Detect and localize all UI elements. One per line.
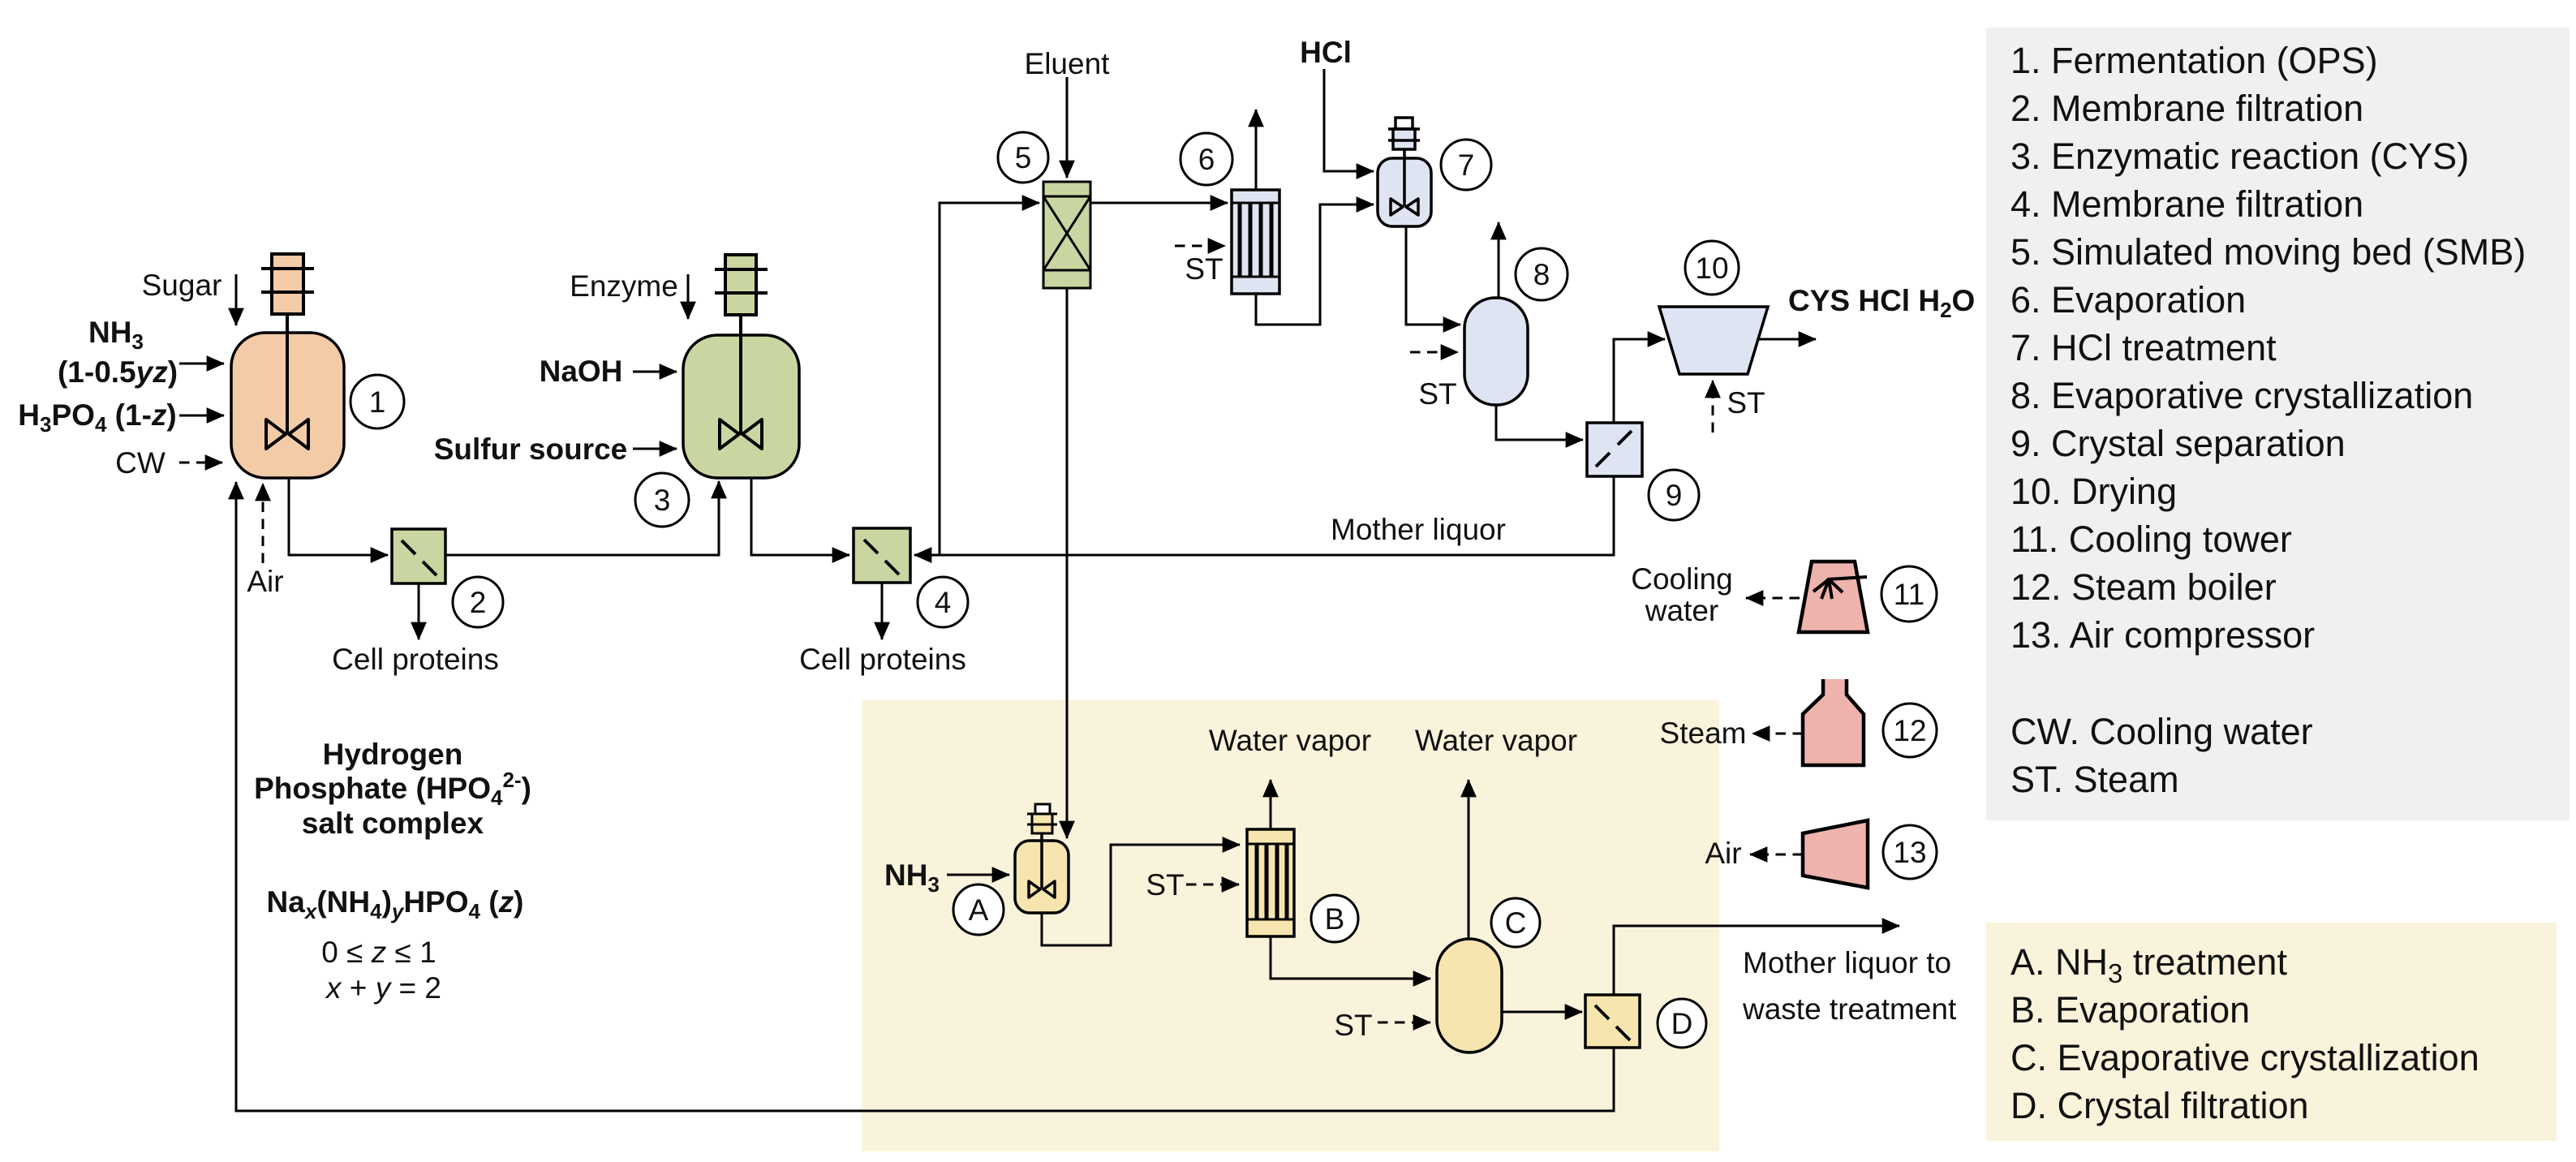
svg-text:Air: Air <box>1705 837 1741 870</box>
svg-text:C: C <box>1505 906 1527 940</box>
svg-text:Air: Air <box>247 565 283 598</box>
svg-text:B: B <box>1325 902 1345 936</box>
crystal filter D <box>1585 995 1640 1048</box>
svg-text:0 ≤ z ≤ 1: 0 ≤ z ≤ 1 <box>321 936 436 969</box>
svg-text:waste treatment: waste treatment <box>1742 992 1957 1026</box>
svg-text:ST. Steam: ST. Steam <box>2010 759 2179 800</box>
evaporator unit 6 <box>1232 190 1279 294</box>
wire mother liquor return: filter9 bottom to filter4 <box>914 476 1614 555</box>
svg-text:B. Evaporation: B. Evaporation <box>2010 989 2250 1031</box>
wire filter4 down to cell proteins <box>881 583 884 639</box>
svg-text:Mother liquor to: Mother liquor to <box>1743 946 1951 979</box>
svg-text:13: 13 <box>1893 836 1926 869</box>
svg-text:Steam: Steam <box>1660 717 1747 750</box>
svg-text:Phosphate (HPO42-): Phosphate (HPO42-) <box>254 768 531 810</box>
wire unit B outlet to vessel C <box>1271 936 1430 979</box>
cooling tower unit 11 <box>1799 562 1868 632</box>
svg-text:4: 4 <box>935 586 952 619</box>
wire cooling water dashed from unit11 <box>1746 597 1800 600</box>
svg-text:Enzyme: Enzyme <box>570 269 678 303</box>
wire ST dashed into vesselC <box>1378 1022 1430 1024</box>
svg-text:A. NH3 treatment: A. NH3 treatment <box>2010 941 2287 988</box>
svg-text:9: 9 <box>1666 479 1683 512</box>
svg-text:salt complex: salt complex <box>302 807 484 840</box>
wire unit10 product outlet <box>1758 338 1816 341</box>
steam boiler unit 12 <box>1803 679 1864 765</box>
svg-text:CW: CW <box>115 446 166 480</box>
svg-text:13. Air compressor: 13. Air compressor <box>2010 614 2315 656</box>
svg-text:Hydrogen: Hydrogen <box>323 738 463 771</box>
wire vessel3 outlet to filter4 <box>751 478 849 555</box>
evaporator unit B <box>1247 829 1294 936</box>
svg-text:Water vapor: Water vapor <box>1415 724 1577 757</box>
node circle A <box>953 884 1004 935</box>
svg-text:Cell proteins: Cell proteins <box>799 643 966 676</box>
wire vessel1 outlet to filter2 <box>289 478 388 555</box>
node circle D <box>1658 999 1706 1048</box>
wire vessel A outlet to unit B <box>1042 845 1240 945</box>
node circle 6 <box>1180 133 1232 185</box>
svg-text:12. Steam boiler: 12. Steam boiler <box>2010 566 2277 608</box>
node circle 7 <box>1441 140 1491 190</box>
svg-text:11: 11 <box>1894 578 1924 611</box>
node circle 4 <box>918 577 968 627</box>
svg-text:5: 5 <box>1015 141 1032 174</box>
node circle 11 <box>1881 566 1937 622</box>
svg-text:ST: ST <box>1418 377 1456 411</box>
wire eluent down into unit5 <box>1066 77 1069 178</box>
svg-text:Sulfur source: Sulfur source <box>434 433 628 466</box>
node circle C <box>1491 898 1540 947</box>
HCl treatment vessel 7 <box>1378 118 1431 226</box>
node circle B <box>1311 895 1358 942</box>
wire enzyme arrow <box>687 274 690 319</box>
wire unit5 outlet to unit6 <box>1090 202 1228 204</box>
svg-text:A: A <box>969 893 989 927</box>
svg-text:D: D <box>1671 1007 1693 1040</box>
wire NaOH feed arrow vessel3 <box>633 371 677 373</box>
wire air dashed arrow into vessel1 <box>262 484 264 563</box>
wire unit6 bottom outlet to unit7 lower inlet <box>1256 204 1374 325</box>
wire unit7 outlet to unit8 <box>1406 226 1460 325</box>
air compressor unit 13 <box>1803 820 1868 888</box>
wire NH3 feed into vessel A <box>947 874 1009 876</box>
wire ST dashed into unit8 <box>1410 351 1458 354</box>
svg-text:10. Drying: 10. Drying <box>2010 471 2177 512</box>
membrane filter 2 <box>392 529 445 583</box>
wire CW dashed arrow <box>179 462 222 464</box>
wire filter9 top to dryer unit10 <box>1614 339 1665 423</box>
svg-text:ST: ST <box>1146 868 1184 902</box>
svg-text:C. Evaporative crystallization: C. Evaporative crystallization <box>2010 1037 2479 1078</box>
svg-text:Eluent: Eluent <box>1025 47 1111 80</box>
svg-text:7. HCl treatment: 7. HCl treatment <box>2010 327 2277 368</box>
wire ST dashed into unit6 <box>1175 245 1225 247</box>
svg-text:HCl: HCl <box>1300 36 1352 69</box>
svg-text:Sugar: Sugar <box>142 269 222 302</box>
wire sulfur source feed arrow vessel3 <box>633 448 677 450</box>
svg-text:7: 7 <box>1458 148 1475 182</box>
wire unit B vapor up <box>1270 780 1272 829</box>
svg-text:3: 3 <box>654 484 671 517</box>
wire unit8 outlet to filter9 <box>1496 405 1583 440</box>
svg-text:11. Cooling tower: 11. Cooling tower <box>2010 519 2292 560</box>
svg-text:12: 12 <box>1893 714 1926 747</box>
svg-text:water: water <box>1645 594 1718 627</box>
svg-text:6. Evaporation: 6. Evaporation <box>2010 279 2246 321</box>
membrane filter 4 <box>854 528 910 583</box>
wire filter D bottom recycle to vessel1 <box>236 482 1614 1111</box>
wire ST dashed into unit10 <box>1712 381 1714 433</box>
wire vessel C outlet to filter D <box>1502 1011 1582 1014</box>
wire unit6 vapor up <box>1255 110 1258 190</box>
svg-text:2: 2 <box>470 586 487 619</box>
evaporative crystallizer vessel C <box>1437 939 1502 1052</box>
legend panel gray <box>1986 28 2570 820</box>
wire air dashed from unit13 <box>1750 854 1803 856</box>
svg-text:9. Crystal separation: 9. Crystal separation <box>2010 423 2346 464</box>
fermenter vessel 1 <box>231 254 344 478</box>
node circle 8 <box>1516 248 1568 300</box>
wire filter2 down to cell proteins <box>418 583 420 639</box>
node circle 9 <box>1649 470 1699 520</box>
wire vessel C vapor up <box>1468 780 1470 939</box>
svg-text:1: 1 <box>369 385 386 419</box>
wire filter D top to waste treatment <box>1614 926 1899 995</box>
wire filter2 to vessel3 bottom inlet <box>445 481 719 555</box>
wire H3PO4 feed arrow vessel1 <box>179 415 224 417</box>
svg-text:NaOH: NaOH <box>540 355 623 388</box>
svg-text:ST: ST <box>1727 386 1765 420</box>
legend panel yellow <box>1986 923 2557 1141</box>
svg-text:1. Fermentation (OPS): 1. Fermentation (OPS) <box>2010 40 2378 81</box>
wire NH3 feed arrow vessel1 <box>179 363 224 365</box>
svg-text:x + y = 2: x + y = 2 <box>325 971 441 1005</box>
svg-text:10: 10 <box>1695 252 1728 285</box>
wire unit8 vapor up <box>1498 222 1500 298</box>
bottom-section background panel (A-D units) <box>862 700 1719 1151</box>
svg-text:8. Evaporative crystallization: 8. Evaporative crystallization <box>2010 375 2473 416</box>
svg-text:8: 8 <box>1533 258 1550 291</box>
svg-text:ST: ST <box>1334 1009 1372 1042</box>
svg-text:Cooling: Cooling <box>1631 562 1732 596</box>
evaporative crystallizer vessel 8 <box>1464 298 1528 405</box>
node circle 12 <box>1883 704 1937 757</box>
SMB column unit 5 <box>1043 182 1090 288</box>
svg-text:3. Enzymatic reaction (CYS): 3. Enzymatic reaction (CYS) <box>2010 136 2469 177</box>
svg-text:5. Simulated moving bed (SMB): 5. Simulated moving bed (SMB) <box>2010 231 2526 273</box>
svg-text:2. Membrane filtration: 2. Membrane filtration <box>2010 88 2363 129</box>
svg-text:(1-0.5yz): (1-0.5yz) <box>58 355 178 389</box>
NH3 treatment vessel A <box>1015 804 1069 913</box>
dryer unit 10 <box>1659 307 1768 374</box>
node circle 10 <box>1685 241 1739 295</box>
svg-text:Cell proteins: Cell proteins <box>332 643 499 676</box>
wire HCl feed into unit7 upper inlet <box>1324 69 1374 171</box>
node circle 5 <box>998 132 1048 183</box>
svg-text:6: 6 <box>1198 143 1215 176</box>
node circle 3 <box>635 473 689 527</box>
svg-text:4. Membrane filtration: 4. Membrane filtration <box>2010 183 2363 225</box>
wire junction up to SMB unit5 inlet <box>940 203 1039 555</box>
svg-text:CW. Cooling water: CW. Cooling water <box>2010 711 2313 752</box>
enzymatic reactor vessel 3 <box>683 255 799 478</box>
wire ST dashed into unitB <box>1186 884 1239 886</box>
wire unit5 bottom outlet down to vessel A <box>1066 288 1069 838</box>
node circle 2 <box>453 577 503 627</box>
svg-text:ST: ST <box>1185 252 1223 286</box>
wire steam dashed from unit12 <box>1752 733 1803 735</box>
svg-text:D. Crystal filtration: D. Crystal filtration <box>2010 1085 2309 1126</box>
crystal separator filter 9 <box>1587 423 1642 476</box>
svg-text:Mother liquor: Mother liquor <box>1331 513 1506 546</box>
node circle 1 <box>350 375 404 428</box>
node circle 13 <box>1883 825 1937 879</box>
svg-text:Water vapor: Water vapor <box>1209 724 1371 757</box>
wire sugar arrow <box>235 274 238 325</box>
